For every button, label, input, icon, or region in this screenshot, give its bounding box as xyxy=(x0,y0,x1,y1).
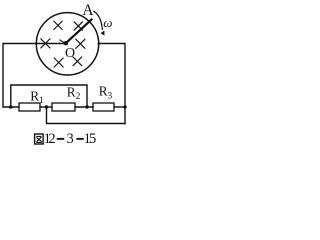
svg-text:A: A xyxy=(82,2,94,19)
svg-text:R2: R2 xyxy=(67,85,81,103)
svg-text:ω: ω xyxy=(103,15,112,30)
svg-text:O: O xyxy=(65,46,75,61)
svg-text:R3: R3 xyxy=(99,84,113,102)
svg-text:2: 2 xyxy=(48,131,55,147)
svg-text:3: 3 xyxy=(66,131,73,147)
svg-text:5: 5 xyxy=(89,131,96,147)
